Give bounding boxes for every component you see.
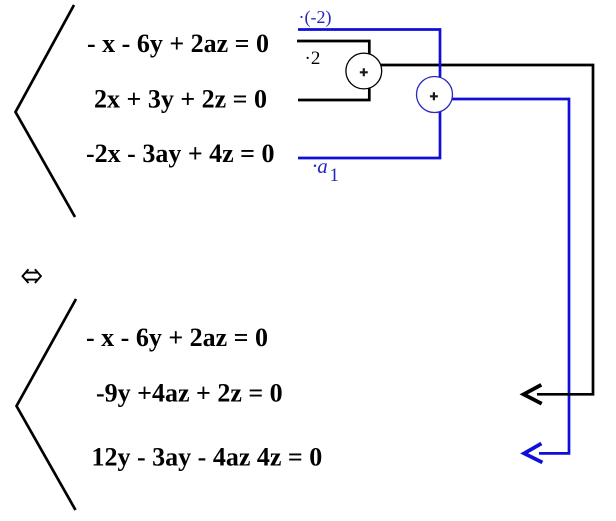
- wire black: eq1 line to adder column down to eq2 line: [297, 41, 369, 100]
- svg-text:·2: ·2: [305, 48, 321, 69]
- wire blue output: from blue adder right, down, to arrow 2: [451, 99, 569, 453]
- bottom system brace: [17, 299, 77, 510]
- wire black output: from black adder right, down, to arrow 1: [380, 65, 593, 394]
- arrowhead black: [524, 385, 542, 404]
- svg-text:- x - 6y + 2az = 0: - x - 6y + 2az = 0: [87, 29, 269, 58]
- arrowhead blue: [524, 444, 542, 463]
- adder circle blue U2: [417, 77, 453, 113]
- svg-text:-9y +4az + 2z = 0: -9y +4az + 2z = 0: [96, 378, 283, 407]
- svg-text:-2x - 3ay + 4z = 0: -2x - 3ay + 4z = 0: [86, 139, 275, 168]
- svg-text:2x + 3y + 2z = 0: 2x + 3y + 2z = 0: [94, 84, 267, 113]
- plus sign in blue adder: [430, 92, 438, 100]
- wire blue: multiply-by-(-2) line from eq1 down to eq3 line: [298, 30, 440, 159]
- svg-text:·a: ·a: [312, 154, 328, 178]
- svg-text:- x - 6y + 2az = 0: - x - 6y + 2az = 0: [86, 323, 268, 352]
- top system brace: [16, 5, 76, 217]
- plus sign in black adder: [360, 68, 368, 76]
- svg-text:1: 1: [330, 165, 340, 186]
- adder circle black U1: [346, 53, 382, 89]
- svg-text:·(-2): ·(-2): [299, 7, 332, 28]
- svg-text:12y - 3ay - 4az 4z = 0: 12y - 3ay - 4az 4z = 0: [92, 442, 323, 471]
- equivalence arrow symbol: [23, 269, 41, 283]
